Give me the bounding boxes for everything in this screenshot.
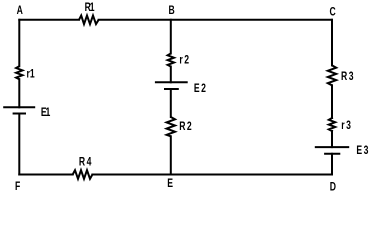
wire F to R4 [19,174,72,176]
svg-text:E1: E1 [41,107,51,119]
battery E3 long plate [315,146,349,148]
wire R3 to r3 [331,85,333,118]
resistor r2 [168,54,174,67]
wire r2 to E2 [170,67,172,83]
wire E3 to D [331,154,333,175]
svg-text:R1: R1 [85,2,95,14]
svg-text:E3: E3 [356,145,370,157]
svg-text:D: D [330,181,336,193]
svg-text:r2: r2 [179,54,190,66]
battery E2 long plate [155,81,188,83]
resistor r1 [16,66,22,79]
svg-text:R3: R3 [341,71,355,83]
wire r1 to E1 [18,79,20,107]
wire R1 to B to C [99,19,332,21]
wire R4 to E to D [92,174,332,176]
svg-text:A: A [17,5,24,17]
battery E1 short plate [13,113,26,115]
svg-text:E2: E2 [194,83,208,95]
resistor r3 [329,118,335,131]
resistor R2 [167,117,175,136]
wire top A to R1 [19,19,79,21]
wire E1 to F [18,114,20,175]
svg-text:E: E [167,178,173,190]
wire E2 to R2 [170,89,172,117]
wire B down to r2 [170,20,172,54]
wire R2 to E [170,136,172,174]
svg-text:r1: r1 [27,68,35,80]
svg-text:R2: R2 [179,121,193,133]
svg-text:F: F [15,181,20,193]
resistor R3 [328,65,336,85]
svg-text:C: C [330,7,337,19]
wire C down to R3 [331,20,333,66]
svg-text:r3: r3 [341,120,352,132]
resistor R1 [79,16,99,25]
wire r3 to E3 [331,131,333,147]
wire A down to r1 [18,20,20,66]
svg-text:B: B [169,5,175,17]
battery E2 short plate [164,88,179,90]
svg-text:R4: R4 [79,157,93,169]
resistor R4 [73,170,93,179]
battery E1 long plate [3,106,35,108]
battery E3 short plate [324,153,340,155]
